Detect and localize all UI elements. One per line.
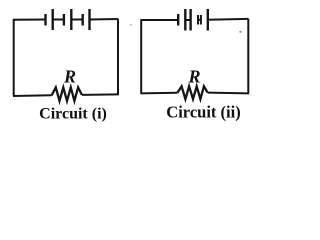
wire: circuit (ii) right vertical side (247, 19, 249, 94)
battery circuit (i) cell 2 long plate (70, 9, 72, 30)
wire: circuit (i) right vertical side (117, 19, 119, 95)
battery circuit (ii) cell 1 short plate (177, 14, 179, 26)
wire: circuit (i) left vertical side (13, 20, 15, 96)
svg-text:Circuit (ii): Circuit (ii) (166, 103, 240, 122)
wire: circuit (i) link cell 2 to cell 3 (71, 19, 82, 21)
wire: circuit (ii) bottom-left segment to resistor (141, 92, 178, 95)
scan speck near circuit (ii) top-right interior (240, 31, 242, 33)
battery circuit (ii) cell 3 long plate (207, 9, 209, 31)
wire: circuit (i) top-right segment from battery (90, 18, 119, 21)
scan speck left of circuit (ii) top-left corner (130, 24, 132, 25)
resistor R circuit (i) zigzag element (52, 87, 82, 101)
wire: circuit (i) bottom-right segment from resistor (82, 93, 119, 96)
battery circuit (ii) cell 3 short plate (200, 15, 202, 25)
wire: circuit (ii) link cell 1 to cell 2 (185, 19, 190, 21)
wire: circuit (i) link cell 1 to cell 2 (53, 19, 64, 21)
svg-text:R: R (187, 67, 200, 87)
wire: circuit (ii) link cell 2 to cell 3 (198, 19, 201, 21)
battery circuit (i) cell 1 short plate (44, 14, 46, 26)
battery circuit (ii) cell 2 short plate (reversed cell) (197, 15, 199, 25)
wire: circuit (ii) left vertical side (140, 20, 142, 93)
resistor R circuit (ii) zigzag element (177, 86, 207, 99)
battery circuit (i) cell 3 short plate (81, 14, 83, 26)
wire: circuit (ii) bottom-right segment from resistor (208, 92, 249, 95)
wire: circuit (i) top-left segment to battery (13, 19, 46, 21)
svg-text:R: R (63, 67, 76, 87)
battery circuit (ii) cell 1 long plate (184, 9, 186, 31)
battery circuit (i) cell 1 long plate (52, 9, 54, 30)
wire: circuit (ii) top-right segment from battery (208, 18, 249, 21)
battery circuit (i) cell 2 short plate (63, 14, 65, 26)
wire: circuit (ii) top-left segment to battery (140, 19, 178, 21)
svg-text:Circuit (i): Circuit (i) (39, 106, 107, 123)
battery circuit (i) cell 3 long plate (88, 9, 90, 30)
battery circuit (ii) cell 2 long plate (reversed cell) (189, 9, 191, 31)
wire: circuit (i) bottom-left segment to resistor (13, 94, 52, 97)
